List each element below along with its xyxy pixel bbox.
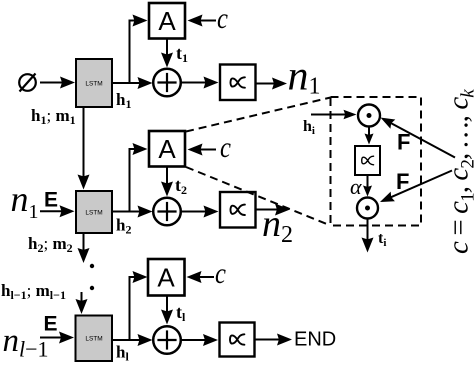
softmax box 3 (proportional-to) (220, 323, 255, 357)
wire: junction up to A2 (130, 143, 148, 212)
label c (context, row2) (220, 131, 231, 164)
label tl (176, 302, 186, 324)
odot-top (elementwise product) (358, 105, 380, 127)
wire: junction up to A1 (130, 15, 148, 84)
dashed connector: A2 top-right to detail box (186, 98, 331, 132)
wire: F arrow from c-list to odot-top (381, 118, 456, 158)
wire: empty-set to LSTM1 (40, 77, 75, 89)
label h1;m1 (state passed down) (31, 106, 76, 127)
wire: A2 down to oplus2 (t2 arrow) (161, 167, 173, 197)
wire: n(l-1)/E into LSTM3 (40, 332, 74, 344)
svg-text:E: E (44, 189, 58, 212)
wire: oplus2 to softmax2 (181, 206, 219, 218)
attention block A3 (148, 259, 185, 296)
wire: hi into odot-top (311, 110, 357, 120)
label n(l-1) (input, row3) (3, 323, 49, 362)
label h2 (output of LSTM2) (116, 216, 131, 237)
oplus2 adder (153, 198, 181, 226)
wire: LSTM3 output to oplus3 (112, 334, 153, 346)
wire: softmax1 to n1 output (256, 78, 288, 90)
svg-text:LSTM: LSTM (85, 210, 102, 217)
ellipsis dot 2 (90, 286, 94, 290)
wire: oplus1 to softmax1 (181, 77, 219, 89)
LSTM2 block (76, 191, 112, 233)
svg-text:LSTM: LSTM (85, 336, 102, 343)
wire: LSTM1 output to oplus1 (112, 77, 153, 89)
wire: oplus3 to softmax3 (181, 334, 219, 346)
svg-text:A: A (158, 6, 176, 36)
wire: n1/E into LSTM2 (40, 205, 75, 217)
svg-text:END: END (294, 329, 336, 351)
label hl (output of LSTM3) (116, 343, 129, 364)
wire: odot-top down to small softmax (365, 127, 374, 145)
svg-text:h2; m2: h2; m2 (28, 234, 73, 255)
svg-text:c: c (220, 131, 231, 164)
label n2 (output) (262, 203, 293, 248)
wire: c into A3 (187, 271, 215, 283)
label n1 (output) (288, 54, 321, 100)
dashed connector: A2 bottom-right to detail box (186, 167, 331, 226)
svg-text:c: c (215, 257, 226, 290)
label E (embedding, row3) (44, 313, 58, 336)
svg-text:E: E (44, 313, 58, 336)
label h(l-1);m(l-1) (1, 281, 66, 302)
wire: small softmax down to odot-bottom (363, 175, 372, 197)
svg-text:LSTM: LSTM (85, 80, 102, 87)
label h1 (output of LSTM1) (116, 90, 131, 111)
oplus1 adder (153, 69, 181, 97)
softmax box 1 (proportional-to) (220, 65, 256, 101)
label n1 (input, row2) (11, 179, 39, 223)
softmax box 2 (proportional-to) (220, 192, 256, 228)
wire: A1 down to oplus1 (t1 arrow) (161, 39, 173, 68)
label END (294, 329, 336, 351)
label alpha (350, 174, 362, 199)
LSTM3 block (76, 316, 113, 362)
label F (upper) (397, 130, 410, 155)
wire: softmax3 to END (255, 334, 293, 346)
wire: LSTM1 state down to LSTM2 (78, 107, 90, 190)
svg-text:h1; m1: h1; m1 (31, 106, 76, 127)
label hi (input to attention) (303, 118, 315, 137)
label ti (378, 230, 386, 249)
label t1 (176, 43, 188, 65)
wire: state down into LSTM3 (76, 292, 88, 314)
label c = c1, c2, ..., ck (rotated) (443, 89, 474, 254)
wire: softmax2 to n2 output (256, 204, 291, 216)
LSTM1 block (76, 59, 112, 107)
attention block A2 (149, 131, 185, 167)
wire: LSTM2 state down (h2;m2) (78, 233, 90, 263)
wire: F arrow from c-list to odot-bottom (380, 171, 452, 203)
wire: A3 down to oplus3 (tl arrow) (161, 296, 173, 325)
wire: junction up to A3 (130, 271, 148, 340)
label F (lower) (396, 169, 409, 194)
svg-text:c = c1, c2, …, ck: c = c1, c2, …, ck (443, 89, 474, 254)
label h2;m2 (28, 234, 73, 255)
svg-text:α: α (350, 174, 362, 199)
odot-bottom (elementwise product) (357, 198, 378, 219)
wire: c into A2 (188, 144, 217, 156)
oplus3 adder (153, 326, 181, 354)
small softmax box (proportional-to) (355, 146, 380, 175)
ellipsis dot 1 (90, 264, 94, 268)
svg-text:c: c (217, 2, 228, 35)
wire: LSTM2 output to oplus2 (112, 206, 153, 218)
attention block A1 (149, 3, 185, 39)
wire: c into A1 (188, 15, 217, 27)
label c (context, row3) (215, 257, 226, 290)
label c (context, row1) (217, 2, 228, 35)
svg-text:A: A (158, 134, 176, 164)
label t2 (175, 175, 187, 197)
wire: odot-bottom down out of box (ti output) (362, 219, 374, 253)
empty-set input symbol (19, 74, 36, 92)
svg-text:A: A (157, 263, 175, 293)
dashed detail box (attention module) (331, 97, 422, 226)
label E (embedding, row2) (44, 189, 58, 212)
